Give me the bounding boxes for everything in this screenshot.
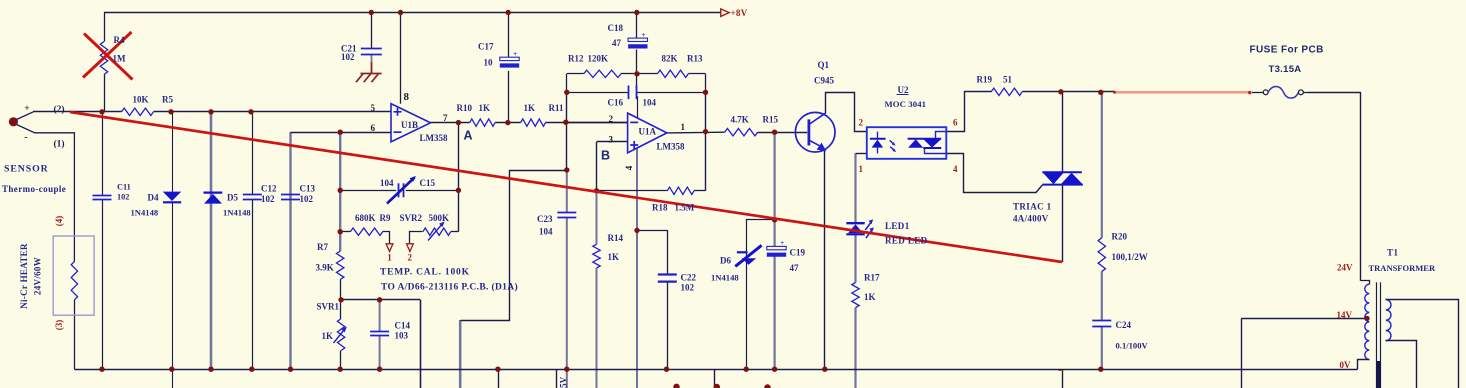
svg-text:LM358: LM358 — [420, 133, 448, 143]
svg-text:4A/400V: 4A/400V — [1013, 214, 1049, 224]
svg-text:680K: 680K — [355, 213, 376, 223]
svg-text:2: 2 — [859, 117, 864, 127]
svg-text:R20: R20 — [1112, 231, 1128, 241]
svg-text:47: 47 — [612, 38, 622, 48]
svg-text:C13: C13 — [300, 183, 316, 193]
svg-text:FUSE For PCB: FUSE For PCB — [1250, 44, 1324, 55]
svg-text:B: B — [601, 149, 610, 163]
svg-text:R18: R18 — [652, 203, 668, 213]
svg-text:1: 1 — [681, 122, 686, 132]
svg-text:C16: C16 — [608, 98, 624, 108]
svg-text:1K: 1K — [864, 292, 876, 302]
svg-text:3: 3 — [609, 134, 614, 144]
svg-text:1K: 1K — [524, 103, 536, 113]
svg-text:2: 2 — [408, 252, 413, 262]
svg-text:Thermo-couple: Thermo-couple — [2, 184, 66, 194]
svg-text:C24: C24 — [1116, 320, 1132, 330]
svg-text:4: 4 — [624, 165, 634, 170]
svg-text:U2: U2 — [898, 85, 909, 95]
svg-text:R5: R5 — [162, 94, 173, 104]
svg-text:120K: 120K — [588, 54, 609, 64]
svg-text:1: 1 — [387, 252, 392, 262]
svg-text:1: 1 — [859, 164, 864, 174]
svg-text:0.1/100V: 0.1/100V — [1116, 341, 1149, 351]
svg-text:24V/60W: 24V/60W — [33, 257, 43, 295]
svg-text:D4: D4 — [148, 193, 159, 203]
svg-text:1K: 1K — [608, 252, 620, 262]
svg-text:C22: C22 — [681, 272, 697, 282]
svg-text:104: 104 — [539, 226, 553, 236]
svg-text:(2): (2) — [54, 104, 65, 115]
svg-text:R15: R15 — [763, 115, 779, 125]
svg-text:51: 51 — [1003, 74, 1013, 84]
svg-text:104: 104 — [380, 178, 394, 188]
svg-text:82K: 82K — [662, 54, 678, 64]
svg-text:C15: C15 — [420, 178, 436, 188]
svg-text:TRIAC 1: TRIAC 1 — [1013, 202, 1052, 212]
svg-text:1K: 1K — [479, 103, 491, 113]
svg-text:SVR1: SVR1 — [317, 301, 340, 311]
svg-text:5: 5 — [371, 103, 376, 113]
svg-text:102: 102 — [117, 193, 129, 202]
svg-text:6: 6 — [953, 117, 958, 127]
svg-text:R17: R17 — [864, 272, 880, 282]
svg-text:U1B: U1B — [401, 120, 418, 130]
svg-text:24V: 24V — [1337, 262, 1353, 272]
svg-text:6: 6 — [371, 123, 376, 133]
svg-text:SVR2: SVR2 — [400, 213, 423, 223]
svg-text:+: + — [513, 49, 517, 58]
svg-text:R11: R11 — [549, 103, 565, 113]
svg-text:R14: R14 — [608, 233, 624, 243]
svg-text:10: 10 — [484, 58, 494, 68]
svg-text:D6: D6 — [720, 255, 731, 265]
svg-text:102: 102 — [300, 194, 314, 204]
svg-text:(1): (1) — [54, 138, 65, 149]
svg-text:1N4148: 1N4148 — [131, 208, 159, 218]
svg-text:C17: C17 — [478, 41, 494, 51]
svg-text:1N4148: 1N4148 — [223, 208, 251, 218]
svg-text:1.5M: 1.5M — [675, 203, 695, 213]
svg-text:0V: 0V — [1340, 360, 1352, 370]
svg-text:+8V: +8V — [731, 8, 748, 18]
svg-text:C14: C14 — [395, 320, 411, 330]
svg-text:10K: 10K — [133, 94, 149, 104]
svg-text:TEMP. CAL. 100K: TEMP. CAL. 100K — [380, 267, 470, 277]
svg-text:102: 102 — [681, 283, 695, 293]
svg-text:Q1: Q1 — [818, 60, 830, 70]
svg-text:+5V: +5V — [559, 376, 569, 388]
svg-text:LED1: LED1 — [885, 221, 910, 231]
svg-text:102: 102 — [341, 52, 355, 62]
svg-text:100,1/2W: 100,1/2W — [1112, 252, 1148, 262]
svg-text:1N4148: 1N4148 — [711, 272, 739, 282]
svg-text:4.7K: 4.7K — [731, 115, 749, 125]
svg-text:TO A/D66-213116 P.C.B. (D1A): TO A/D66-213116 P.C.B. (D1A) — [381, 281, 518, 292]
svg-text:R9: R9 — [380, 213, 391, 223]
svg-text:C11: C11 — [117, 183, 131, 192]
svg-text:R7: R7 — [317, 242, 328, 252]
svg-text:RED LED: RED LED — [885, 236, 928, 246]
svg-text:500K: 500K — [429, 213, 450, 223]
svg-text:MOC 3041: MOC 3041 — [885, 99, 927, 109]
svg-text:R4: R4 — [114, 35, 125, 45]
svg-text:R10: R10 — [457, 103, 473, 113]
svg-text:Ni-Cr HEATER: Ni-Cr HEATER — [19, 243, 29, 309]
svg-text:14V: 14V — [1337, 310, 1353, 320]
svg-text:103: 103 — [395, 330, 409, 340]
svg-text:C18: C18 — [608, 23, 624, 33]
svg-text:T1: T1 — [1387, 247, 1399, 257]
svg-text:1M: 1M — [113, 54, 127, 64]
svg-text:(3): (3) — [54, 320, 64, 331]
svg-text:4: 4 — [953, 164, 958, 174]
svg-text:R13: R13 — [687, 54, 703, 64]
svg-text:102: 102 — [261, 194, 275, 204]
svg-text:8: 8 — [404, 91, 410, 103]
svg-text:104: 104 — [643, 98, 657, 108]
svg-text:SENSOR: SENSOR — [4, 163, 49, 174]
svg-text:C945: C945 — [814, 75, 834, 85]
svg-text:C23: C23 — [537, 214, 553, 224]
svg-text:A: A — [464, 129, 473, 143]
svg-text:TRANSFORMER: TRANSFORMER — [1369, 263, 1436, 273]
svg-text:C12: C12 — [261, 183, 277, 193]
svg-text:47: 47 — [790, 263, 800, 273]
svg-text:-: - — [24, 132, 27, 143]
svg-text:+: + — [24, 104, 29, 114]
svg-text:R19: R19 — [977, 74, 993, 84]
svg-text:T3.15A: T3.15A — [1269, 64, 1302, 75]
svg-text:D5: D5 — [227, 193, 238, 203]
svg-text:R12: R12 — [568, 54, 584, 64]
svg-text:LM358: LM358 — [657, 141, 685, 151]
svg-text:(4): (4) — [54, 216, 64, 227]
svg-text:+: + — [641, 30, 645, 39]
svg-text:3.9K: 3.9K — [316, 262, 334, 272]
svg-text:C19: C19 — [790, 248, 806, 258]
svg-text:7: 7 — [443, 113, 448, 123]
svg-text:+: + — [780, 238, 784, 247]
svg-text:2: 2 — [609, 114, 614, 124]
svg-text:1K: 1K — [322, 331, 334, 341]
svg-text:U1A: U1A — [639, 126, 657, 136]
